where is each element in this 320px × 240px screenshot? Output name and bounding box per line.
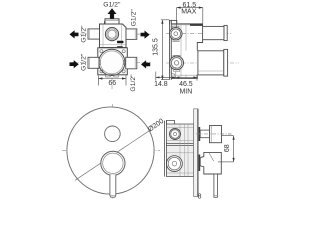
- svg-text:G1/2": G1/2": [103, 1, 121, 8]
- lower boss under lug: [174, 70, 180, 72]
- dim 61.5 extensions: [176, 8, 178, 27]
- MIN chip: [117, 46, 123, 48]
- corner screw bottom-left: [100, 70, 103, 73]
- svg-text:MIN: MIN: [179, 89, 192, 96]
- dark hub through plate upper: [199, 127, 201, 141]
- centerline vertical valve front: [111, 13, 113, 90]
- upper boss rings: [170, 28, 182, 40]
- boss under lug: [173, 40, 179, 42]
- top outlet stub: [105, 19, 119, 24]
- boss mid lug: [173, 55, 180, 57]
- diverter stem: [200, 130, 209, 138]
- lower sleeve to wall: [198, 51, 224, 75]
- wall plate edge-on: [194, 109, 198, 197]
- arrow upper-left (out): [70, 30, 79, 38]
- dim extensions bottom: [155, 72, 157, 81]
- cartridge big circle: [99, 49, 125, 75]
- dim 66 line: [98, 78, 126, 80]
- body outline side: [171, 24, 202, 79]
- handle cone line: [209, 152, 214, 161]
- dim 66 extension right: [125, 75, 127, 85]
- handle base outer: [101, 151, 125, 175]
- centerline diverter stem axis: [196, 133, 232, 135]
- wall bracket vertical: [169, 20, 171, 80]
- dim 61.5 line: [177, 7, 203, 9]
- centerline upper ports row: [72, 33, 152, 35]
- upper-right stub: [126, 29, 137, 40]
- svg-text:G1/2": G1/2": [130, 74, 137, 92]
- bottom tab right: [114, 75, 119, 77]
- handle base inner: [103, 153, 123, 173]
- boss top lug: [173, 26, 180, 28]
- upper boss small: [170, 129, 181, 140]
- lever handle side: [200, 152, 221, 174]
- bracket foot: [171, 73, 175, 78]
- cartridge side lug left: [98, 60, 100, 64]
- upper-left stub: [88, 29, 100, 39]
- internal hidden lines: [180, 25, 182, 79]
- svg-text:G1/2": G1/2": [80, 25, 87, 43]
- svg-text:14.8: 14.8: [154, 81, 168, 88]
- svg-text:135.5: 135.5: [152, 38, 159, 56]
- svg-text:G1/2": G1/2": [80, 53, 87, 71]
- svg-text:66: 66: [108, 80, 116, 87]
- dark nut band: [190, 24, 203, 26]
- arrow lower-right (in): [141, 60, 150, 68]
- cartridge side lug right: [124, 60, 126, 64]
- dim 68 extensions: [222, 135, 234, 137]
- dim 14.8 / 46.5 line: [156, 76, 197, 78]
- centerline horizontal plate: [62, 149, 160, 151]
- corner screw top-left: [100, 50, 103, 53]
- arrow upper-right (out): [141, 31, 150, 39]
- leader line O200: [75, 131, 150, 181]
- svg-text:8: 8: [198, 193, 202, 200]
- lower-right stub: [126, 57, 137, 69]
- lower boss rings: [170, 56, 184, 70]
- diverter knob side: [210, 126, 222, 143]
- arrow lower-left (in): [70, 60, 79, 68]
- svg-text:G1/2": G1/2": [130, 9, 137, 27]
- valve body small side view: [166, 124, 193, 177]
- dim 68 line: [233, 136, 235, 162]
- centerline vertical plate: [112, 104, 114, 199]
- corner screw bottom-right: [122, 70, 125, 73]
- upper pipe stub to wall: [203, 26, 224, 39]
- lower-left stub: [88, 57, 99, 68]
- valve body upper block: [100, 22, 127, 48]
- MAX chip: [117, 41, 124, 43]
- svg-text:68: 68: [224, 144, 231, 152]
- dim 66 extension left: [97, 76, 99, 86]
- lower boss small: [167, 156, 183, 172]
- dark hub through plate lower: [199, 155, 201, 172]
- top stub cap: [105, 19, 119, 21]
- lever rod front: [110, 175, 116, 197]
- bottom tab left: [106, 75, 111, 77]
- plate circle O200: [67, 107, 154, 194]
- bracket top tab: [170, 20, 177, 24]
- dim 135.5 extensions: [161, 19, 169, 21]
- svg-text:MAX: MAX: [181, 8, 197, 15]
- centerline lower ports row: [72, 62, 152, 64]
- centerline diverter knob: [101, 133, 124, 135]
- valve body lower block: [98, 48, 128, 75]
- lever rod side: [214, 174, 218, 197]
- upper port circle: [105, 27, 118, 40]
- arrow up G1/2: [108, 8, 117, 19]
- svg-text:46.5: 46.5: [179, 81, 193, 88]
- corner screw top-right: [122, 50, 125, 53]
- centerline lower pipe axis: [166, 62, 239, 64]
- upper pipe end flange: [224, 25, 227, 40]
- centerline upper pipe axis: [166, 32, 231, 34]
- dim 135.5 line: [161, 20, 163, 80]
- lower sleeve end flange: [224, 49, 228, 76]
- diverter knob circle: [105, 126, 121, 142]
